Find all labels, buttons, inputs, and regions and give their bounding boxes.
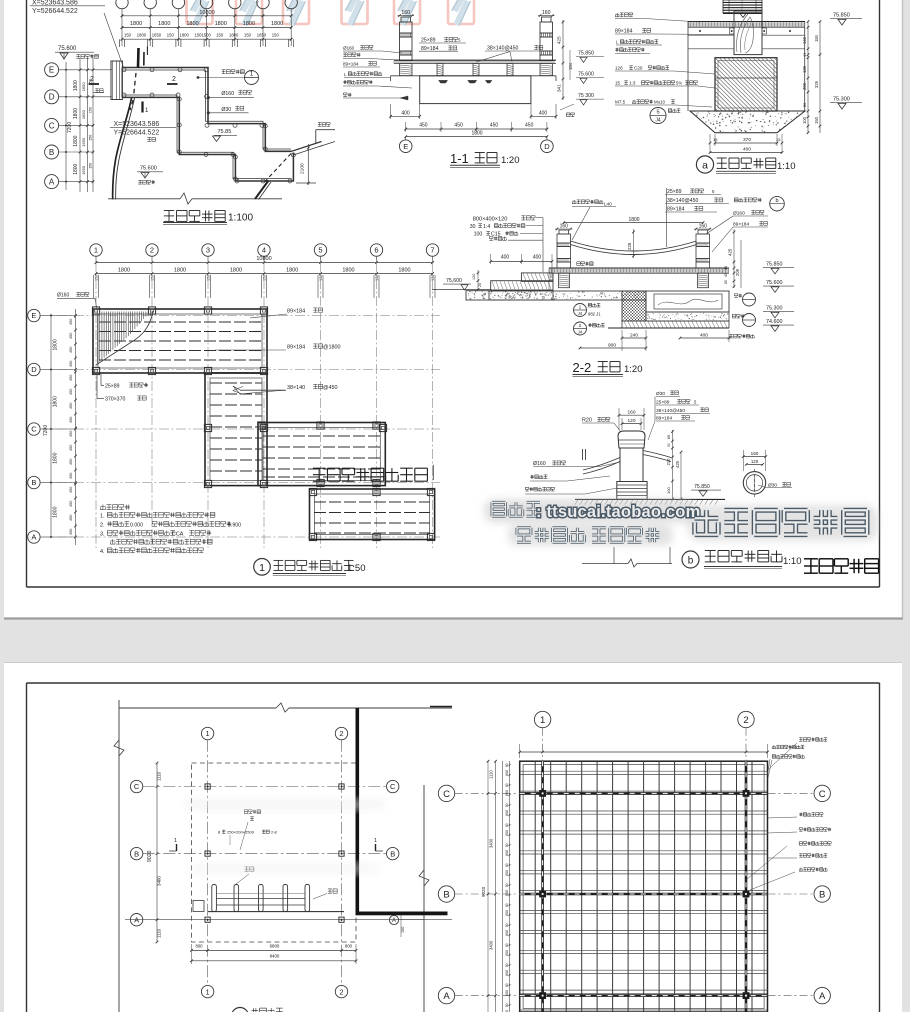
plan2 label top note: [240, 810, 261, 850]
svg-text:1800: 1800: [174, 268, 186, 274]
svg-text:425: 425: [675, 460, 680, 468]
pergola grid main beams: [520, 761, 768, 1012]
svg-text:80: 80: [505, 763, 509, 767]
svg-text:425: 425: [728, 248, 733, 256]
beam plan grid centrelines: [40, 262, 440, 548]
svg-text:Y=526644.522: Y=526644.522: [114, 130, 160, 137]
page 1 sheet: [4, 0, 902, 618]
section mark 2 right: [167, 76, 178, 84]
svg-text:: ttsucai.taobao.com: : ttsucai.taobao.com: [536, 503, 700, 521]
svg-text:1800: 1800: [230, 268, 242, 274]
svg-text:80: 80: [505, 963, 509, 967]
svg-text:75.600: 75.600: [140, 166, 157, 172]
svg-text:R20: R20: [582, 418, 592, 424]
svg-text:C: C: [819, 789, 826, 800]
svg-text:1650: 1650: [152, 33, 162, 38]
svg-text:Ø30: Ø30: [221, 107, 231, 113]
svg-text:150: 150: [431, 275, 435, 281]
svg-text:1800: 1800: [52, 396, 58, 407]
svg-text:100: 100: [401, 927, 405, 933]
svg-text:150: 150: [124, 33, 132, 38]
svg-text:150: 150: [151, 275, 155, 281]
brick level 75.300: [830, 97, 862, 110]
svg-text:400: 400: [501, 254, 510, 260]
svg-text:C: C: [49, 121, 55, 130]
svg-text:J4: J4: [578, 330, 583, 335]
title: section 1-1 1:20: [450, 151, 520, 167]
svg-text:600: 600: [505, 890, 509, 896]
svg-text:140: 140: [802, 36, 807, 44]
beam plan hatched membrane region: [96, 311, 153, 365]
svg-text:75.850: 75.850: [833, 13, 850, 19]
svg-text:D: D: [544, 142, 550, 151]
svg-text:150: 150: [272, 33, 280, 38]
svg-text:450: 450: [69, 361, 73, 367]
svg-text:1800: 1800: [628, 217, 639, 223]
svg-text:450: 450: [69, 417, 73, 423]
svg-text:250×200×2500: 250×200×2500: [227, 830, 255, 835]
post detail body: [620, 448, 643, 482]
svg-text:7200: 7200: [67, 122, 73, 133]
svg-text:1: 1: [540, 715, 545, 726]
label post dia160: [207, 90, 254, 99]
pergola left dim chain: [481, 760, 511, 1012]
section 2-2 substructure: [489, 291, 729, 328]
section 2-2 left post: [555, 223, 573, 268]
svg-text:1:100: 1:100: [228, 213, 253, 224]
section 2-2 right dim chain: [724, 229, 741, 288]
svg-text:80: 80: [505, 883, 509, 887]
svg-text:1650: 1650: [81, 109, 86, 119]
page 2 sheet: [4, 663, 902, 1012]
svg-text:J4: J4: [655, 118, 661, 124]
svg-text:38×140@450: 38×140@450: [667, 198, 698, 204]
svg-text:38×140@450: 38×140@450: [487, 46, 518, 52]
svg-text:225: 225: [627, 242, 632, 250]
svg-text:75.600: 75.600: [58, 46, 77, 52]
svg-text:5.900: 5.900: [228, 523, 241, 529]
stream bank curves: [113, 98, 135, 200]
dim 120 rotated: [549, 268, 554, 291]
svg-text:40: 40: [724, 273, 728, 277]
svg-text:600: 600: [505, 990, 509, 996]
level 75.85: [210, 129, 237, 142]
svg-text:C: C: [134, 782, 140, 791]
svg-text:800: 800: [196, 943, 204, 948]
svg-text:600: 600: [505, 930, 509, 936]
svg-text:80: 80: [505, 983, 509, 987]
svg-text:120: 120: [627, 418, 635, 424]
svg-text:1: 1: [579, 305, 582, 311]
section 2-2 level 75.600 left: [443, 270, 482, 291]
svg-text:Ø30: Ø30: [656, 391, 665, 397]
plan2 bubble 2 top: [335, 727, 347, 739]
svg-text:150: 150: [89, 163, 93, 169]
section mark 2 left: [89, 76, 99, 84]
plan walkway deck outline: [111, 61, 293, 181]
section 2-2 dim 400 400: [489, 254, 553, 272]
svg-text:1501500: 1501500: [195, 33, 212, 38]
svg-text:1800: 1800: [53, 339, 59, 350]
svg-text:126: 126: [802, 65, 807, 73]
svg-text:1110: 1110: [157, 771, 162, 781]
svg-text:400: 400: [700, 333, 708, 339]
svg-text:B: B: [390, 849, 395, 858]
svg-text:X=523643.586: X=523643.586: [114, 121, 160, 128]
svg-text:1:3: 1:3: [629, 81, 636, 86]
svg-text:80: 80: [505, 1003, 509, 1007]
ramp and shoreline: [292, 123, 336, 156]
svg-text:1800: 1800: [158, 21, 170, 27]
section mark 1 mid: [143, 102, 150, 115]
svg-text:3400: 3400: [157, 876, 162, 886]
svg-text:B: B: [49, 148, 54, 157]
svg-text:80: 80: [505, 923, 509, 927]
plan top dimension chain: [120, 10, 294, 47]
plan2 label slats note: [218, 830, 278, 846]
svg-text:100: 100: [474, 232, 483, 238]
brick detail side rails: [688, 30, 805, 49]
svg-text:150: 150: [167, 33, 175, 38]
brick detail right dim chains: [802, 20, 821, 134]
brick detail top rail boards: [723, 0, 762, 18]
post detail right dims: [666, 430, 682, 500]
title: timber post detail 1:10: [682, 551, 802, 569]
title: brick column detail 1:10: [696, 156, 795, 173]
svg-text:400: 400: [533, 254, 542, 260]
section 2-2 sag cables: [571, 229, 697, 258]
label wood deck + detail bubble: [197, 70, 259, 85]
svg-text:1800: 1800: [243, 21, 255, 27]
svg-text:160: 160: [751, 451, 759, 456]
plan2 dashed boundary: [192, 763, 357, 942]
page 2 drawing frame: [26, 683, 28, 1012]
svg-text:450: 450: [69, 389, 73, 395]
svg-text:1800: 1800: [229, 33, 239, 38]
svg-text:Y=526644.522: Y=526644.522: [32, 8, 78, 15]
svg-text:1:4: 1:4: [483, 224, 490, 230]
svg-text:3.: 3.: [100, 532, 105, 538]
post detail base planks: [617, 482, 647, 500]
svg-text:450: 450: [69, 487, 73, 493]
svg-text:89×184: 89×184: [615, 29, 633, 35]
section 2-2 bottom dims: [579, 330, 755, 351]
pergola roof grid: [520, 761, 768, 1012]
beam plan grid bubbles 1-7: [90, 244, 439, 262]
brick detail bottom dims: [709, 134, 784, 154]
svg-text:80: 80: [505, 863, 509, 867]
svg-text:370×370: 370×370: [105, 397, 125, 403]
plan grid bubbles E-A (left): [45, 63, 112, 189]
svg-text:1800: 1800: [342, 268, 354, 274]
svg-text:1110: 1110: [489, 770, 494, 779]
svg-text:9020: 9020: [147, 850, 153, 862]
brick detail footing: [690, 111, 805, 133]
coordinate label X/Y mid: [110, 121, 176, 137]
post detail dims 160 120: [618, 408, 646, 430]
svg-text:150: 150: [89, 135, 93, 141]
label 89x184 beam: [250, 308, 323, 318]
svg-text:C: C: [31, 425, 37, 434]
lower ramp diagonal: [255, 181, 271, 200]
svg-text:75.600: 75.600: [766, 280, 783, 286]
svg-text:80: 80: [505, 803, 509, 807]
svg-text:25×89: 25×89: [421, 38, 436, 44]
section 1-1 beam: [391, 76, 556, 104]
svg-text:450: 450: [454, 122, 463, 128]
svg-text:3: 3: [206, 246, 210, 255]
svg-text:30: 30: [470, 224, 476, 230]
svg-text:75.600: 75.600: [578, 72, 594, 78]
svg-text:A: A: [49, 178, 55, 187]
svg-text:2: 2: [743, 715, 748, 726]
svg-text:E: E: [403, 142, 408, 151]
svg-text:209: 209: [735, 268, 740, 276]
plan2 thick wall: [356, 708, 448, 915]
svg-text:1:10: 1:10: [783, 556, 802, 567]
plan railing post circles: [122, 68, 295, 183]
svg-text:8400: 8400: [270, 954, 280, 959]
svg-text:M7.5: M7.5: [615, 100, 626, 105]
label 370x370 column: [97, 374, 146, 403]
svg-text:160: 160: [627, 410, 635, 416]
title: curved bridge plan 1:100: [163, 211, 253, 225]
svg-text:450: 450: [69, 375, 73, 381]
svg-text:25×89: 25×89: [105, 384, 120, 390]
svg-text:1650: 1650: [81, 137, 86, 147]
plan2 bubble 1 bottom: [201, 985, 213, 997]
svg-text:126: 126: [615, 66, 623, 71]
plan2 column markers: [205, 784, 344, 922]
svg-text:1:50: 1:50: [347, 563, 366, 574]
svg-text:Ø160: Ø160: [221, 91, 234, 97]
svg-text:1: 1: [250, 71, 254, 78]
label 38x140 at 450: [233, 384, 337, 394]
svg-text:89×184: 89×184: [343, 62, 359, 67]
detail mark right 2: [732, 314, 755, 327]
pergola right labels: [746, 738, 831, 890]
svg-text:B: B: [443, 889, 449, 900]
plan2 bench and planters: [193, 885, 344, 912]
svg-text:400: 400: [743, 147, 751, 153]
title: beam layout plan 1:50: [254, 559, 366, 576]
svg-text:600: 600: [505, 850, 509, 856]
svg-text:450: 450: [69, 445, 73, 451]
label dia30: [207, 106, 248, 114]
svg-text:38×140@450: 38×140@450: [656, 408, 685, 414]
svg-text:425: 425: [557, 36, 562, 44]
detail mark 2 left: [574, 322, 605, 335]
svg-text:B: B: [819, 889, 825, 900]
svg-text:80: 80: [505, 783, 509, 787]
svg-text:20: 20: [478, 283, 482, 287]
svg-text:1800: 1800: [286, 268, 298, 274]
sheet title: curved bridge details: [804, 559, 879, 573]
svg-text:1: 1: [94, 246, 98, 255]
svg-text:J4: J4: [578, 311, 583, 316]
svg-text:160: 160: [699, 223, 708, 229]
plan2 bottom dims: [190, 943, 357, 964]
svg-text:80: 80: [505, 903, 509, 907]
svg-text:@450: @450: [323, 385, 337, 391]
beam plan grid bubbles E-A: [28, 309, 76, 543]
svg-text:1.: 1.: [100, 514, 105, 520]
svg-text:15: 15: [615, 81, 621, 86]
svg-text:80: 80: [505, 843, 509, 847]
svg-text:@1800: @1800: [323, 345, 340, 351]
svg-text:1:20: 1:20: [624, 364, 643, 375]
brick detail left face line: [687, 22, 689, 112]
svg-text:1110: 1110: [157, 928, 162, 938]
dashed centreline: [130, 73, 292, 182]
svg-text:50: 50: [803, 103, 807, 107]
beam plan joists: [99, 322, 430, 533]
svg-text:1: 1: [206, 729, 210, 738]
svg-text:210: 210: [666, 458, 671, 466]
svg-text:1800: 1800: [186, 21, 198, 27]
svg-text:1650: 1650: [81, 165, 86, 175]
svg-text:Ø160: Ø160: [343, 46, 355, 51]
section 1-1 bubble E: [399, 137, 412, 153]
overlay title: tensile membrane pavilion detail: [313, 465, 433, 481]
plan2 section marks 1: [169, 838, 383, 851]
svg-text:150: 150: [207, 275, 211, 281]
svg-text:120: 120: [751, 459, 759, 464]
post detail rails: [583, 449, 672, 474]
pergola bubbles C B A: [438, 785, 830, 1004]
svg-text:1:10: 1:10: [777, 161, 796, 172]
section 2-2 right levels: [763, 262, 794, 332]
svg-text:75.300: 75.300: [833, 97, 850, 103]
label 89x184 at 1800: [215, 344, 340, 351]
svg-text:1800: 1800: [118, 268, 130, 274]
svg-text:b: b: [688, 556, 694, 567]
svg-text:150: 150: [216, 33, 224, 38]
svg-text:1800: 1800: [180, 33, 190, 38]
svg-text:89×184: 89×184: [733, 222, 749, 228]
svg-text:370: 370: [743, 137, 751, 143]
svg-text:450: 450: [69, 473, 73, 479]
brick column hatch: [656, 58, 831, 111]
section 2-2 right post: [694, 223, 712, 268]
section 1-1 top labels: [419, 37, 545, 62]
svg-text:85: 85: [667, 435, 671, 439]
svg-text:89×184: 89×184: [287, 309, 305, 315]
section 1-1 joists: [400, 64, 553, 76]
plan grid bubbles 1-7 (top, cut): [116, 0, 298, 46]
svg-text:1800: 1800: [73, 108, 79, 119]
svg-text:44: 44: [803, 53, 807, 57]
brick level 75.850: [830, 13, 862, 26]
beam plan column markers: [92, 307, 434, 541]
design notes text block: [100, 505, 241, 556]
svg-text:75.850: 75.850: [694, 484, 710, 490]
svg-text:982 J1: 982 J1: [588, 312, 601, 317]
svg-text:75.300: 75.300: [766, 306, 783, 312]
svg-text:450: 450: [69, 529, 73, 535]
brick detail right face line: [804, 22, 806, 112]
svg-text:2100: 2100: [300, 163, 306, 174]
leader line from XY to plan: [104, 13, 124, 69]
section 1-1 left labels: [343, 45, 412, 100]
svg-text:5: 5: [318, 246, 322, 255]
svg-text:600: 600: [505, 790, 509, 796]
svg-text:74.600: 74.600: [766, 319, 783, 325]
svg-text:1: 1: [206, 987, 210, 996]
svg-text:120: 120: [472, 274, 476, 280]
svg-text:450: 450: [69, 333, 73, 339]
svg-text:200: 200: [802, 82, 807, 90]
svg-text:L40: L40: [604, 202, 612, 207]
pergola top dim line: [518, 744, 768, 758]
section 2-2 dim 1800: [563, 217, 705, 224]
page2 cut border lines: [114, 700, 452, 1012]
svg-text:89×184: 89×184: [287, 345, 305, 351]
section 1-1 bubble D: [541, 137, 554, 153]
svg-text:75.850: 75.850: [766, 262, 783, 268]
label R20 rounded corner: [582, 417, 621, 432]
svg-text:2: 2: [339, 987, 343, 996]
svg-text:7: 7: [430, 246, 434, 255]
post detail top labels: [648, 391, 710, 440]
plan left dimension chain: [65, 58, 94, 192]
watermark logo icons, top row: [187, 0, 475, 25]
taobao watermark text: [484, 499, 878, 546]
brick detail timber post with grain: [730, 11, 767, 55]
svg-text:25×89: 25×89: [667, 189, 682, 195]
section 2-2 labels: [470, 188, 785, 272]
svg-text:E: E: [49, 66, 54, 75]
svg-text:5: 5: [656, 110, 659, 116]
svg-text:1800: 1800: [73, 163, 79, 174]
svg-text:600: 600: [505, 770, 509, 776]
svg-text:0.000: 0.000: [130, 523, 143, 529]
svg-text:1800: 1800: [398, 268, 410, 274]
stray dim line bottom: [582, 547, 672, 567]
svg-text:2: 2: [172, 76, 176, 83]
svg-text:450: 450: [490, 122, 499, 128]
svg-text:160: 160: [560, 223, 569, 229]
plan2 grid lines: [125, 740, 452, 986]
post detail level 75.850: [691, 484, 721, 496]
svg-text:1800: 1800: [137, 33, 147, 38]
section 1-1 right post: [538, 10, 555, 60]
svg-text:B: B: [134, 849, 139, 858]
svg-text:450: 450: [69, 459, 73, 465]
svg-text:450: 450: [69, 347, 73, 353]
label E2 small: [93, 89, 104, 93]
svg-text:1650: 1650: [81, 82, 86, 92]
svg-text:75 300: 75 300: [578, 93, 594, 99]
section 1-1 left post: [398, 10, 415, 60]
plan2 bubbles C B A left: [130, 780, 142, 926]
svg-text:Ø160: Ø160: [57, 293, 69, 299]
svg-text:89×184: 89×184: [656, 416, 672, 422]
beam plan level 75.600 right: [0, 0, 1, 1]
pergola bubble 1: [534, 711, 550, 761]
svg-text:80: 80: [505, 943, 509, 947]
svg-text:450: 450: [69, 515, 73, 521]
svg-text:600: 600: [505, 950, 509, 956]
svg-text:150: 150: [263, 275, 267, 281]
svg-text:Mu10: Mu10: [654, 100, 666, 105]
svg-text:450: 450: [419, 122, 428, 128]
svg-text:3400: 3400: [489, 940, 494, 950]
svg-text:A: A: [31, 533, 36, 542]
svg-text:1800: 1800: [53, 452, 59, 463]
section mark 1 top: [138, 47, 147, 68]
svg-text:6: 6: [374, 246, 378, 255]
